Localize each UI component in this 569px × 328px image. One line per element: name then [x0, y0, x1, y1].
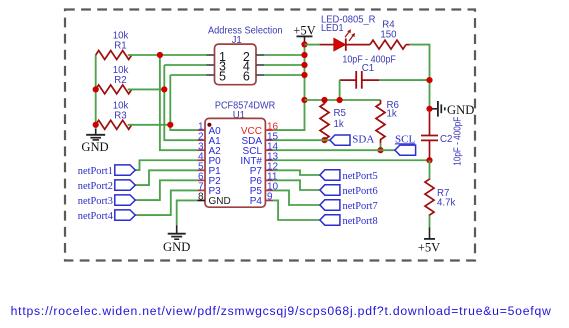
svg-text:netPort7: netPort7 [343, 200, 379, 212]
pin1 marker dot [207, 123, 211, 127]
wire U1 pin11 to netPort6 [273, 180, 320, 190]
wire J1 pin5 [170, 74, 206, 76]
net flag netPort5 [320, 170, 378, 182]
wire R6 bottom to SCL wire [380, 143, 382, 150]
wire netPort3 to U1 pin6 [135, 180, 197, 200]
svg-text:SDA: SDA [352, 133, 374, 145]
svg-text:6: 6 [243, 69, 250, 83]
wire right rail to R7 [429, 160, 431, 178]
wire SCL (U1 pin14 to flag) [273, 149, 395, 151]
wire C1 right to right rail [379, 79, 429, 81]
svg-text:GND: GND [209, 196, 231, 207]
svg-text:R1: R1 [114, 41, 126, 52]
svg-text:+5V: +5V [418, 241, 441, 255]
resistor R2 [96, 65, 132, 94]
net flag netPort1 [78, 165, 136, 177]
net flag netPort4 [78, 210, 136, 222]
wire netPort2 to U1 pin5 [135, 170, 197, 185]
svg-text:GND: GND [81, 140, 108, 154]
wire U1 pin8 to ground [177, 200, 198, 225]
svg-text:SCL: SCL [395, 133, 415, 145]
svg-text:C2: C2 [440, 134, 452, 145]
wire C1 left branch down to pullup rail [339, 80, 341, 100]
svg-text:150: 150 [380, 30, 397, 41]
svg-text:netPort4: netPort4 [78, 210, 114, 222]
wires J1 right pins to +5V rail [264, 54, 304, 56]
junction dot node B / R2 [161, 86, 167, 92]
junction dot R5 bottom / SDA [321, 137, 327, 143]
svg-text:https://rocelec.widen.net/view: https://rocelec.widen.net/view/pdf/zsmwg… [11, 304, 552, 318]
svg-text:netPort6: netPort6 [343, 185, 379, 197]
wire U1 pin10 to netPort7 [273, 190, 320, 205]
capacitor C2 [421, 112, 464, 166]
resistor R7 [425, 179, 455, 216]
svg-text:netPort1: netPort1 [78, 165, 113, 177]
svg-text:netPort2: netPort2 [78, 180, 113, 192]
ground (left, below R3) [81, 129, 108, 154]
wire R7 to +5V bottom [429, 216, 431, 228]
wire R1 to J1 pin1 [128, 54, 207, 56]
junction dot C1 branch [337, 97, 343, 103]
net flag netPort3 [78, 195, 136, 207]
+5V power symbol (top) [293, 23, 316, 44]
junction dot R3 left [93, 122, 99, 128]
wire U1 pin9 to netPort8 [273, 200, 320, 220]
resistor R1 [96, 31, 132, 60]
svg-text:P4: P4 [250, 196, 263, 207]
svg-text:netPort5: netPort5 [343, 170, 379, 182]
svg-text:LED1: LED1 [321, 23, 344, 34]
net flag netPort7 [320, 200, 378, 212]
svg-text:netPort3: netPort3 [78, 195, 114, 207]
wire +5V rail to LED [305, 44, 320, 46]
wire: vertical A (J1.1 to U1 pin3) [160, 55, 197, 150]
junction dot R2 left [93, 86, 99, 92]
J1 pin stubs right [256, 54, 264, 56]
resistor R5 [320, 100, 346, 143]
wire INT# (U1 pin13 to right rail) [273, 159, 429, 161]
connector J1 (Address Selection) [207, 25, 283, 84]
wire J1 pin3 [164, 64, 206, 66]
wire R3 to node C [128, 124, 171, 126]
capacitor C1 [340, 54, 396, 88]
left pin stubs 1-8 [197, 129, 205, 131]
junction dot node A / R1 [157, 52, 163, 58]
ground (right side, rotated) [430, 101, 475, 117]
svg-text:8: 8 [198, 192, 204, 203]
wire: vertical C (J1.5 to U1 pin1) [170, 75, 197, 130]
junction dot C1 right rail [426, 77, 432, 83]
right pin stubs 16-9 [265, 129, 273, 131]
svg-text:R2: R2 [114, 75, 126, 86]
resistor R6 [376, 100, 399, 143]
LED LED1 (LED-0805_R) [320, 15, 376, 51]
junction dot R6 bottom / SCL [377, 147, 383, 153]
net flag SCL [395, 133, 416, 155]
resistor R4 [370, 20, 410, 50]
junction dots on +5V rail [301, 41, 307, 47]
net flag netPort2 [78, 180, 136, 192]
svg-text:1k: 1k [387, 109, 397, 120]
svg-text:10pF - 400pF: 10pF - 400pF [453, 117, 464, 166]
svg-text:R5: R5 [334, 108, 346, 119]
junction dot INT#/C2/R7 [426, 157, 432, 163]
wire netPort1 to U1 pin4 [135, 160, 197, 170]
wire SDA (U1 pin15 to flag) [273, 139, 330, 141]
net flag netPort8 [320, 215, 378, 227]
net flag SDA [330, 133, 374, 145]
resistor R3 [96, 101, 132, 130]
svg-text:4.7k: 4.7k [437, 198, 455, 209]
svg-text:9: 9 [267, 192, 273, 203]
junction dot node C / R3 [167, 122, 173, 128]
wire U1 pin12 to netPort5 [273, 170, 320, 175]
svg-text:netPort8: netPort8 [343, 215, 379, 227]
svg-text:GND: GND [447, 103, 474, 117]
svg-text:GND: GND [163, 240, 190, 254]
IC U1 PCF8574DWR [197, 101, 278, 208]
wire: vertical B (J1.3 to U1 pin2) [164, 65, 197, 140]
wire netPort4 to U1 pin7 [135, 190, 197, 215]
junction dot R5 top [321, 97, 327, 103]
junction dot GND branch [426, 106, 432, 112]
svg-text:1k: 1k [334, 119, 344, 130]
wire: +5V rail vertical [273, 44, 304, 130]
LED arrows [345, 32, 349, 37]
svg-text:5: 5 [219, 69, 226, 83]
wire: left bus vertical R1-R3 [95, 55, 97, 130]
frame border (decorative) [65, 10, 475, 261]
ground (below U1 pin8) [163, 225, 190, 254]
svg-text:R3: R3 [114, 111, 126, 122]
svg-text:Address Selection: Address Selection [208, 25, 283, 36]
J1 pin stubs left [207, 54, 215, 56]
wire R2 to node B [128, 88, 165, 90]
wire pullup rail horizontal [305, 99, 381, 101]
+5V power symbol (bottom) [418, 227, 441, 254]
svg-text:C1: C1 [362, 63, 374, 74]
net flag netPort6 [320, 185, 378, 197]
wire R4 to right rail [410, 45, 430, 112]
svg-text:+5V: +5V [293, 23, 316, 37]
